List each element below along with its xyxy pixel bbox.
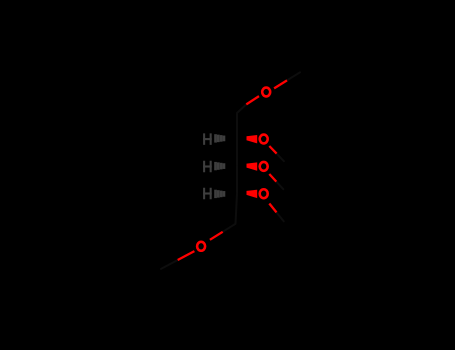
bond O6-C7 red half (274, 80, 287, 88)
bond C1-O6 red half (246, 96, 259, 104)
bond C5-O8 dark half (223, 224, 236, 232)
bond O6-C7 dark half (287, 72, 300, 80)
solid wedge C3-O2 (247, 162, 258, 170)
bond O3-C3e red half (269, 204, 276, 213)
bond O3-C3e dark half (277, 212, 284, 221)
hashed wedge C4-H (214, 190, 225, 198)
atom O3 (260, 189, 268, 198)
wire (161, 72, 300, 269)
atom O2 (260, 162, 268, 171)
bond O2-C2e dark half (276, 182, 283, 190)
atom O1 (260, 135, 268, 144)
bond O8-C9 red half (178, 251, 195, 260)
bond C1-O6 dark half (237, 104, 246, 113)
atom H on C4 (203, 188, 212, 200)
bond O8-C9 dark half (161, 260, 178, 269)
bond C3-C4 (236, 166, 238, 193)
atom H on C2 (203, 133, 212, 145)
bond C1-C2 (236, 113, 238, 139)
hashed wedge C2-H (214, 134, 225, 142)
bond C5-O8 red half (210, 232, 223, 240)
red bond halves (178, 80, 287, 260)
solid wedge C4-O3 (247, 190, 258, 198)
atom H on C3 (203, 161, 212, 173)
solid wedge C2-O1 (247, 135, 258, 143)
atom O6 top (262, 88, 270, 97)
atom O8 bottom (197, 242, 205, 251)
hashed wedge C3-H (214, 162, 225, 170)
bond O1-C1e dark half (277, 154, 284, 162)
bond O2-C2e red half (269, 174, 276, 182)
bond C4-C5 (236, 194, 238, 224)
bond O1-C1e red half (269, 146, 276, 154)
bond C2-C3 (236, 139, 238, 166)
